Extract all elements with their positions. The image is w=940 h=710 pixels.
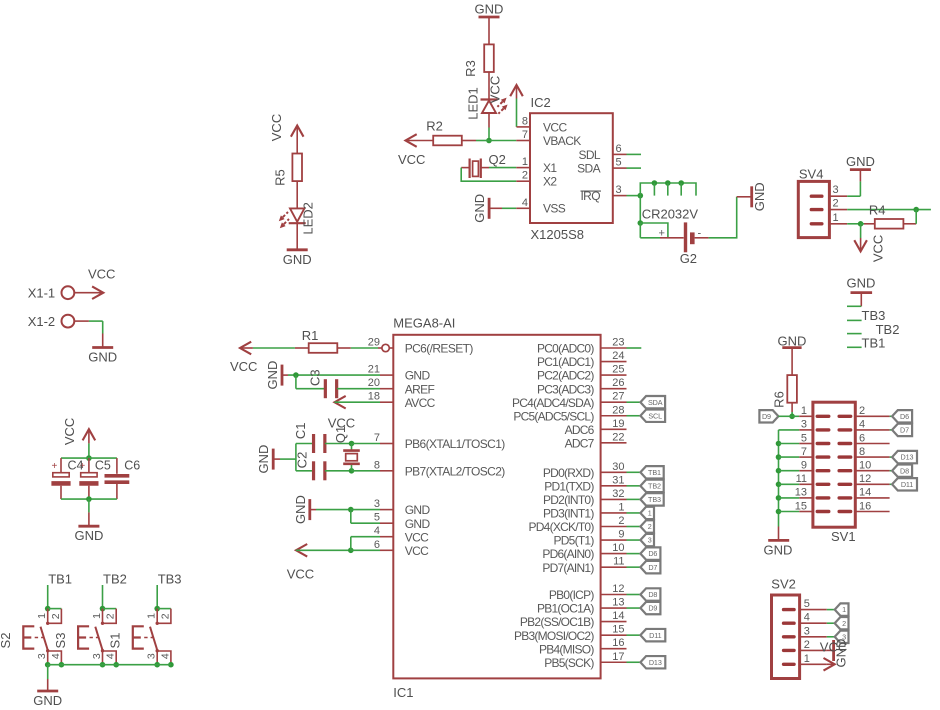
svg-text:VCC: VCC (398, 152, 425, 167)
svg-text:3: 3 (36, 653, 48, 659)
svg-text:X1-1: X1-1 (28, 286, 55, 301)
svg-text:+: + (659, 228, 665, 240)
svg-text:2: 2 (50, 613, 62, 619)
svg-text:8: 8 (859, 446, 865, 458)
svg-text:PB3(MOSI/OC2): PB3(MOSI/OC2) (514, 629, 594, 643)
svg-text:D13: D13 (649, 658, 662, 667)
svg-text:SV1: SV1 (831, 529, 856, 544)
svg-text:5: 5 (801, 432, 807, 444)
svg-text:23: 23 (612, 337, 624, 349)
svg-text:D8: D8 (648, 590, 657, 599)
svg-text:14: 14 (859, 487, 871, 499)
svg-text:16: 16 (859, 500, 871, 512)
svg-text:1: 1 (801, 405, 807, 417)
svg-text:C6: C6 (124, 458, 140, 472)
svg-text:GND: GND (752, 182, 767, 211)
svg-text:18: 18 (368, 391, 380, 403)
svg-text:27: 27 (612, 391, 624, 403)
svg-text:2: 2 (648, 522, 652, 531)
svg-text:12: 12 (859, 473, 871, 485)
svg-text:D9: D9 (648, 604, 657, 613)
svg-text:PB0(ICP): PB0(ICP) (549, 588, 594, 602)
svg-text:VCC: VCC (269, 114, 284, 141)
svg-text:17: 17 (612, 651, 624, 663)
svg-text:S2: S2 (0, 633, 13, 649)
svg-text:8: 8 (374, 459, 380, 471)
svg-text:SCL: SCL (648, 411, 662, 420)
svg-text:IC2: IC2 (531, 95, 551, 110)
svg-text:C2: C2 (295, 452, 310, 469)
svg-text:AVCC: AVCC (405, 396, 436, 410)
svg-text:1: 1 (833, 212, 839, 224)
svg-text:TB2: TB2 (648, 481, 661, 490)
svg-text:6: 6 (374, 539, 380, 551)
svg-text:Q1: Q1 (333, 426, 348, 443)
svg-text:7: 7 (374, 432, 380, 444)
svg-text:Q2: Q2 (489, 152, 506, 167)
svg-text:D11: D11 (901, 480, 913, 489)
svg-text:2: 2 (859, 405, 865, 417)
svg-text:31: 31 (612, 474, 624, 486)
svg-text:6: 6 (616, 143, 622, 155)
svg-text:20: 20 (368, 377, 380, 389)
svg-text:GND: GND (265, 361, 280, 390)
svg-text:22: 22 (612, 431, 624, 443)
svg-text:LED1: LED1 (466, 87, 481, 120)
svg-text:PB5(SCK): PB5(SCK) (544, 656, 594, 670)
svg-text:X2: X2 (543, 175, 557, 189)
svg-text:VCC: VCC (62, 418, 77, 445)
svg-text:4: 4 (859, 419, 865, 431)
svg-text:VCC: VCC (543, 120, 567, 134)
svg-text:PD7(AIN1): PD7(AIN1) (542, 561, 594, 575)
svg-text:2: 2 (522, 170, 528, 182)
svg-text:4: 4 (374, 525, 380, 537)
svg-text:2: 2 (159, 613, 171, 619)
svg-text:TB1: TB1 (862, 336, 886, 351)
svg-text:TB1: TB1 (48, 572, 72, 587)
svg-text:10: 10 (859, 460, 871, 472)
svg-text:29: 29 (368, 337, 380, 349)
svg-text:GND: GND (846, 154, 875, 169)
svg-text:3: 3 (833, 184, 839, 196)
svg-text:21: 21 (368, 364, 380, 376)
svg-text:11: 11 (613, 556, 624, 568)
svg-text:GND: GND (293, 495, 308, 524)
svg-text:GND: GND (405, 517, 431, 531)
svg-text:PB1(OC1A): PB1(OC1A) (537, 602, 594, 616)
svg-text:ADC6: ADC6 (565, 423, 595, 437)
svg-text:TB1: TB1 (648, 468, 661, 477)
svg-text:VCC: VCC (88, 267, 115, 282)
svg-text:PD2(INT0): PD2(INT0) (543, 493, 594, 507)
svg-text:SV4: SV4 (799, 166, 824, 181)
svg-text:1: 1 (146, 613, 158, 619)
svg-text:IC1: IC1 (393, 685, 413, 700)
svg-text:PD6(AIN0): PD6(AIN0) (542, 547, 594, 561)
svg-text:GND: GND (405, 503, 431, 517)
svg-text:PC4(ADC4/SDA): PC4(ADC4/SDA) (512, 396, 594, 410)
svg-text:2: 2 (804, 639, 810, 651)
svg-text:SDA: SDA (577, 162, 600, 176)
svg-text:3: 3 (616, 184, 622, 196)
svg-text:19: 19 (612, 418, 624, 430)
svg-text:MEGA8-AI: MEGA8-AI (393, 316, 455, 331)
svg-text:LED2: LED2 (301, 202, 316, 235)
svg-text:R5: R5 (273, 169, 288, 186)
svg-text:X1: X1 (543, 161, 557, 175)
svg-text:C3: C3 (308, 369, 323, 386)
svg-text:3: 3 (801, 419, 807, 431)
svg-text:D9: D9 (762, 412, 771, 421)
svg-text:D6: D6 (900, 412, 909, 421)
svg-text:5: 5 (616, 157, 622, 169)
svg-text:C1: C1 (293, 422, 308, 439)
svg-text:15: 15 (612, 624, 624, 636)
svg-text:S1: S1 (108, 633, 123, 649)
svg-text:TB2: TB2 (103, 572, 127, 587)
svg-text:R4: R4 (869, 203, 886, 218)
svg-text:32: 32 (612, 488, 624, 500)
svg-text:1: 1 (648, 509, 652, 518)
svg-text:1: 1 (618, 501, 624, 513)
svg-text:9: 9 (618, 529, 624, 541)
svg-text:TB3: TB3 (648, 495, 661, 504)
svg-text:2: 2 (105, 613, 117, 619)
svg-text:PD4(XCK/T0): PD4(XCK/T0) (528, 520, 594, 534)
svg-text:D7: D7 (900, 426, 909, 435)
svg-text:13: 13 (795, 487, 807, 499)
svg-text:ADC7: ADC7 (565, 436, 595, 450)
svg-text:14: 14 (612, 610, 624, 622)
svg-text:X1-2: X1-2 (28, 314, 55, 329)
svg-text:GND: GND (256, 445, 271, 474)
svg-text:SDL: SDL (578, 148, 600, 162)
svg-text:4: 4 (105, 653, 117, 659)
svg-text:GND: GND (847, 276, 876, 291)
svg-text:GND: GND (764, 543, 793, 558)
svg-text:7: 7 (522, 129, 528, 141)
svg-text:PC1(ADC1): PC1(ADC1) (537, 355, 594, 369)
svg-text:PB2(SS/OC1B): PB2(SS/OC1B) (520, 615, 594, 629)
svg-text:PC3(ADC3): PC3(ADC3) (537, 382, 594, 396)
svg-text:G2: G2 (680, 251, 697, 266)
svg-text:26: 26 (612, 377, 624, 389)
svg-text:15: 15 (795, 500, 807, 512)
svg-text:7: 7 (801, 446, 807, 458)
svg-text:PC0(ADC0): PC0(ADC0) (537, 342, 594, 356)
svg-text:CR2032V: CR2032V (642, 207, 699, 222)
svg-text:30: 30 (612, 461, 624, 473)
svg-text:11: 11 (796, 473, 807, 485)
svg-text:VCC: VCC (488, 76, 503, 103)
svg-text:VCC: VCC (230, 359, 257, 374)
svg-text:1: 1 (36, 613, 48, 619)
svg-text:4: 4 (804, 612, 810, 624)
svg-text:C5: C5 (95, 458, 111, 472)
svg-text:4: 4 (159, 653, 171, 659)
svg-text:PD3(INT1): PD3(INT1) (543, 507, 594, 521)
svg-text:PC6(/RESET): PC6(/RESET) (405, 342, 474, 356)
svg-text:2: 2 (842, 619, 846, 628)
svg-text:16: 16 (612, 637, 624, 649)
svg-text:9: 9 (801, 460, 807, 472)
svg-text:1: 1 (91, 613, 103, 619)
svg-text:+: + (51, 461, 57, 472)
svg-text:3: 3 (146, 653, 158, 659)
svg-text:1: 1 (804, 653, 810, 665)
svg-text:VCC: VCC (405, 544, 429, 558)
svg-text:3: 3 (804, 625, 810, 637)
svg-text:5: 5 (374, 512, 380, 524)
svg-text:3: 3 (374, 498, 380, 510)
svg-text:VBACK: VBACK (543, 134, 581, 148)
svg-text:R2: R2 (426, 119, 443, 134)
svg-text:VCC: VCC (871, 235, 886, 262)
svg-text:D8: D8 (900, 466, 909, 475)
svg-text:D7: D7 (648, 563, 657, 572)
svg-text:PB6(XTAL1/TOSC1): PB6(XTAL1/TOSC1) (405, 437, 506, 451)
svg-text:SV2: SV2 (771, 577, 796, 592)
svg-text:C4: C4 (68, 458, 84, 472)
svg-text:4: 4 (50, 653, 62, 659)
svg-text:GND: GND (472, 194, 487, 223)
svg-text:PB7(XTAL2/TOSC2): PB7(XTAL2/TOSC2) (405, 464, 506, 478)
svg-text:10: 10 (612, 542, 624, 554)
svg-text:PD0(RXD): PD0(RXD) (543, 466, 594, 480)
svg-text:2: 2 (833, 198, 839, 210)
svg-text:TB3: TB3 (158, 572, 182, 587)
svg-text:6: 6 (859, 432, 865, 444)
svg-text:3: 3 (648, 536, 652, 545)
svg-text:GND: GND (88, 350, 117, 365)
svg-text:VSS: VSS (543, 202, 566, 216)
svg-text:R3: R3 (463, 60, 478, 77)
svg-text:PC2(ADC2): PC2(ADC2) (537, 369, 594, 383)
svg-text:PD1(TXD): PD1(TXD) (544, 479, 594, 493)
svg-text:1: 1 (842, 605, 846, 614)
svg-text:X1205S8: X1205S8 (531, 227, 585, 242)
svg-text:GND: GND (475, 2, 504, 17)
svg-text:AREF: AREF (405, 382, 435, 396)
svg-text:SDA: SDA (648, 398, 663, 407)
svg-text:R6: R6 (772, 391, 787, 408)
svg-text:VCC: VCC (405, 530, 429, 544)
svg-text:PD5(T1): PD5(T1) (554, 534, 595, 548)
svg-text:GND: GND (405, 369, 431, 383)
svg-text:4: 4 (522, 197, 528, 209)
svg-text:3: 3 (91, 653, 103, 659)
svg-text:D6: D6 (648, 549, 657, 558)
svg-text:5: 5 (804, 598, 810, 610)
svg-text:13: 13 (612, 597, 624, 609)
svg-text:2: 2 (618, 515, 624, 527)
svg-text:GND: GND (33, 693, 62, 708)
svg-text:PC5(ADC5/SCL): PC5(ADC5/SCL) (513, 409, 594, 423)
svg-text:R1: R1 (302, 328, 319, 343)
svg-text:12: 12 (612, 583, 624, 595)
svg-text:24: 24 (612, 350, 624, 362)
svg-text:GND: GND (74, 528, 103, 543)
svg-text:D11: D11 (649, 631, 661, 640)
svg-text:D13: D13 (901, 453, 914, 462)
svg-text:S3: S3 (53, 633, 68, 649)
svg-text:25: 25 (612, 364, 624, 376)
svg-text:28: 28 (612, 404, 624, 416)
svg-text:8: 8 (522, 115, 528, 127)
svg-text:TB3: TB3 (862, 308, 886, 323)
svg-text:GND: GND (283, 252, 312, 267)
svg-text:VCC: VCC (287, 567, 314, 582)
svg-text:VCC: VCC (820, 640, 847, 655)
svg-text:1: 1 (522, 156, 528, 168)
svg-text:PB4(MISO): PB4(MISO) (539, 642, 594, 656)
